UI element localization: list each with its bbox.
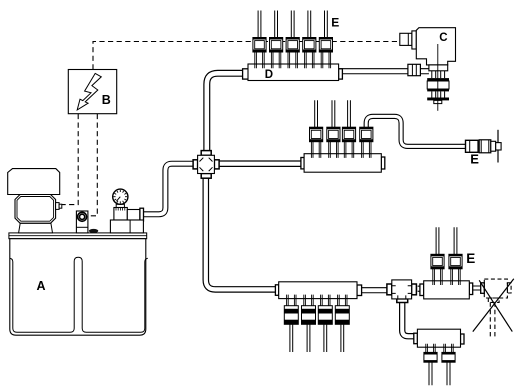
electrical control box B: [68, 70, 116, 114]
svg-text:C: C: [439, 32, 447, 44]
svg-text:D: D: [265, 69, 273, 81]
dashed control line B to motor: [62, 114, 78, 205]
injector 4 on bottom-left manifold: [335, 295, 349, 352]
bottom manifold (2 port down): [414, 329, 464, 347]
manifold D: [243, 64, 343, 81]
svg-text:B: B: [102, 93, 111, 107]
injector 1 on E manifold: [431, 227, 444, 285]
svg-text:E: E: [331, 16, 339, 30]
bottom-left manifold: [275, 282, 361, 299]
lightning bolt: [77, 73, 101, 110]
injector 2 on bottom-left manifold: [301, 295, 315, 352]
crossed-out future fitting: [473, 279, 514, 338]
pipe pump to cross: [143, 164, 193, 215]
injector E1 on D: [253, 11, 266, 69]
svg-text:E: E: [470, 151, 479, 166]
pipe cross right to mid manifold: [219, 160, 301, 167]
dashed control line B to C: [93, 42, 400, 70]
injector 1 on bottom manifold: [424, 344, 437, 386]
mid manifold: [301, 154, 385, 173]
spray nozzle E right: [466, 130, 502, 163]
injector E5 on D: [319, 11, 332, 69]
motor: [8, 169, 62, 233]
svg-text:A: A: [37, 279, 46, 293]
injector 3 on mid manifold: [342, 100, 355, 158]
injector 3 on bottom-left manifold: [318, 295, 332, 352]
injector E4 on D: [303, 11, 316, 69]
pipe manifold D to pressure switch C: [339, 68, 429, 74]
pipe injector 4 to spray nozzle E: [366, 116, 465, 146]
pump discharge post with knob: [76, 211, 88, 233]
injector 1 on bottom-left manifold: [284, 295, 298, 352]
pressure gauge and outlet block: [110, 189, 143, 233]
injector E2 on D: [269, 11, 282, 69]
injector 2 on bottom manifold: [442, 344, 455, 386]
tee fitting: [387, 280, 417, 303]
pipe bottom-left manifold to tee: [362, 287, 387, 293]
pipe cross down to bottom-left manifold: [206, 174, 276, 290]
reservoir tank A: [9, 233, 148, 335]
injector E3 on D: [286, 11, 299, 69]
injector 2 on E manifold: [449, 227, 462, 285]
pipe tee down to bottom manifold: [402, 302, 414, 336]
pipe cross up to manifold D: [207, 73, 243, 150]
dashed control line B to pump post: [88, 114, 97, 216]
E manifold (2 port): [420, 281, 473, 299]
pressure switch C: [400, 28, 456, 111]
filler cap: [89, 229, 98, 233]
injector 4 on mid manifold (feeds spray nozzle E): [360, 127, 373, 158]
svg-text:E: E: [466, 251, 475, 266]
pipe tee to E manifold: [418, 286, 420, 292]
injector 2 on mid manifold: [327, 100, 340, 158]
cross fitting: [193, 151, 219, 179]
injector 1 on mid manifold: [309, 100, 322, 158]
pipe E manifold to crossed-out fitting: [473, 286, 481, 291]
